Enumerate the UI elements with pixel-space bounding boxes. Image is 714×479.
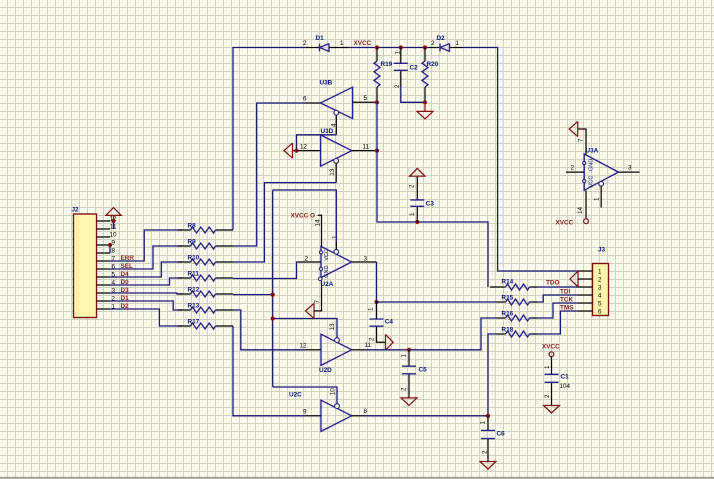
svg-text:8: 8 [111,248,115,255]
svg-text:C6: C6 [497,431,506,438]
svg-text:R19: R19 [381,61,393,68]
wire J2 pin12-pin11 tie [113,221,115,229]
resistor R14 [490,279,537,291]
svg-text:D2: D2 [437,35,446,42]
wire U3B pin4 to U3D pin12 node [297,135,337,151]
resistor R12 [178,287,233,298]
U3A pin1 bubble [599,181,604,186]
svg-text:U3D: U3D [321,128,334,135]
junction R12 joins [271,293,275,297]
svg-text:13: 13 [329,323,336,331]
svg-text:1: 1 [594,197,601,201]
ground below C6 [480,462,496,470]
wire R12 net: vertical with taps to U2A pin1, U2D pin13, U2C pin10 [233,190,337,404]
svg-text:GND: GND [324,266,330,278]
power arrow XVCC above C3 [410,168,425,178]
junction XVCC/R20 [423,45,427,49]
U2A pin3 stub [352,261,377,263]
op-amp buffer U2C (points right) [289,392,368,432]
ground below R20/C2 [417,102,433,119]
capacitor C4 [368,302,394,342]
op-amp buffer U3A (points right) [571,148,633,191]
svg-text:5: 5 [364,95,368,102]
junction C3 [415,220,419,224]
junction U3D pin12 [294,149,298,153]
svg-text:XVCC O: XVCC O [291,213,316,220]
svg-text:2: 2 [544,394,551,398]
sheet bottom border [0,477,714,479]
svg-text:14: 14 [577,206,584,214]
ground below C1 [544,406,560,414]
wire SEL pin6 to R9 [110,246,182,269]
junction U2D pin13 tap [271,316,275,320]
op-amp buffer U2D (points right) [300,334,372,374]
wire D0 pin4 to R11 [110,278,182,285]
svg-text:XVCC: XVCC [556,219,574,226]
svg-text:5: 5 [598,300,602,307]
wire R10 to U3D pin13 [233,183,336,262]
power arrow GND at U3D pin12 [284,143,297,158]
wire U2A out to R15 [377,301,498,303]
svg-text:4: 4 [598,292,602,299]
J3 pin numbers [598,268,602,315]
power arrow GND at U3A pin7 [569,122,578,137]
svg-text:VCC: VCC [324,249,330,261]
U3D pin11 stub [352,150,377,152]
op-amp buffer U3B (points left) [303,80,368,119]
junction at J2 pin9 [108,243,112,247]
connector J2 [72,207,97,318]
junction C6 [486,414,490,418]
svg-text:TDO: TDO [546,280,560,287]
svg-text:11: 11 [363,144,370,151]
svg-text:2: 2 [431,40,435,47]
svg-text:2: 2 [481,450,488,454]
svg-text:9: 9 [303,409,307,416]
resistor R19 [374,48,393,103]
svg-text:14: 14 [315,219,322,227]
svg-text:C5: C5 [419,367,428,374]
wire U2A out down to TDI row [376,262,378,302]
junction XVCC/C2 [399,45,403,49]
U2C pin8 stub [352,415,365,417]
power arrow VCC above J2 [106,208,121,221]
capacitor C5 [400,350,427,398]
wire D3 pin3 to R12 [110,293,182,294]
svg-text:1: 1 [456,40,460,47]
wire ERR pin7 to R8 [110,230,182,261]
power arrow at C4 bottom (points right) [386,335,394,350]
svg-text:J2: J2 [72,207,80,214]
svg-text:VCC: VCC [588,176,594,188]
wire R14 to J3 pin3 TDO [537,286,578,288]
svg-text:1: 1 [479,421,486,425]
resistor R17 [178,319,233,330]
U3D pin12 stub [297,150,321,152]
svg-text:1: 1 [400,354,407,358]
svg-text:U3B: U3B [320,80,333,87]
wire R8 up to top rail and to D1 [233,48,306,231]
wire R18 to J3 pin6 TMS [537,311,578,334]
svg-text:J3: J3 [598,247,606,254]
wire R16 to J3 pin5 TCK [537,303,578,318]
resistor R13 [178,303,233,314]
resistor R16 [498,311,538,322]
resistor R15 [498,295,538,306]
junction C5 [407,348,411,352]
U3A pin3 stub [618,171,639,173]
ground below C5 [401,398,417,406]
power port XVCC above C1 [542,344,560,357]
svg-text:XVCC: XVCC [542,344,560,351]
U2D pin13 bubble [335,338,340,343]
J2 pin numbers [109,216,117,311]
capacitor C6 [479,416,505,462]
capacitor C1 [544,357,571,406]
U3A pin2 stub [566,171,584,173]
svg-text:3: 3 [628,164,632,171]
svg-text:2: 2 [369,337,376,341]
svg-text:2: 2 [571,165,575,172]
svg-text:12: 12 [300,144,308,151]
svg-text:U2C: U2C [289,392,302,399]
junction XVCC/R19 [375,45,379,49]
svg-text:1: 1 [332,235,339,239]
svg-text:1: 1 [598,268,602,275]
svg-text:2: 2 [394,84,401,88]
svg-text:C1: C1 [561,374,570,381]
wire D1 to D2 along XVCC rail, down right side to J3 pin1 [348,48,578,272]
wire C2 bottom to R20 bottom / ground [401,87,425,102]
svg-text:GND: GND [588,159,594,171]
junction U3D out on vertical [375,149,379,153]
svg-text:6: 6 [598,308,602,315]
svg-text:U3A: U3A [586,148,599,155]
power arrow GND at U2A pin7 [306,303,315,318]
svg-text:U2A: U2A [321,281,334,288]
svg-text:8: 8 [364,408,368,415]
svg-text:2: 2 [303,40,307,47]
power arrow at J3 pin2 [570,271,578,287]
svg-text:2: 2 [401,387,408,391]
U2A pin7 bubble [318,277,322,281]
svg-text:10: 10 [329,388,336,396]
resistor R11 [178,271,233,282]
power port XVCC at U3A pin14 [556,219,589,227]
wire D4 pin5 to R10 [110,262,182,277]
U2A pin1 bubble [334,249,339,254]
junction C4 top [374,300,378,304]
svg-text:D1: D1 [316,35,325,42]
U3B pin4 bubble [334,110,339,115]
svg-text:7: 7 [314,300,321,304]
svg-text:XVCC: XVCC [354,40,372,47]
wire R9 to U3B pin6 [233,103,305,246]
wire J2 pin9-pin8 tie [109,245,111,253]
op-amp buffer U2A (points right) [305,246,368,287]
wire U3B/U3D outputs down to C3 node and over to R14 [377,102,488,287]
wire R17 to U2C pin9 [233,326,305,416]
svg-text:104: 104 [560,383,571,390]
wire D2 pin1 to R17 [110,309,182,326]
wire U2C out to C6 node and R18 riser [365,334,498,416]
U2C pin9 stub [305,415,321,417]
svg-text:C3: C3 [426,201,435,208]
svg-text:1: 1 [409,212,416,216]
diode D1 [303,35,348,51]
svg-text:12: 12 [300,343,308,350]
wire R15 to J3 pin4 TDI [537,295,578,302]
svg-text:6: 6 [303,96,307,103]
wire U2D out to R16 riser [365,318,498,350]
capacitor C2 [394,48,418,89]
svg-text:2: 2 [598,276,602,283]
J2 pin stubs pins 12..1 [97,221,111,309]
U2D pin11 stub [352,349,365,351]
U2C pin10 bubble [335,404,340,409]
svg-text:1: 1 [368,307,375,311]
U3B pin6 stub [305,102,321,104]
resistor R10 [178,255,233,266]
resistor R20 [422,48,439,103]
wire R13 to U2D pin12 [233,310,305,350]
resistor R9 [178,239,233,250]
svg-text:10: 10 [109,232,117,239]
U2A pin2 stub [298,261,321,263]
U2D pin12 stub [305,349,321,351]
capacitor C3 [409,177,435,222]
svg-text:1: 1 [340,40,344,47]
junction U3B out / R19 bottom [375,100,379,104]
svg-text:9: 9 [111,240,115,247]
junction R20 bottom [423,100,427,104]
diode D2 [429,35,462,51]
connector J3 [593,247,609,316]
svg-text:13: 13 [329,168,336,176]
svg-text:U2D: U2D [319,367,332,374]
svg-text:C2: C2 [410,65,419,72]
svg-text:7: 7 [577,138,584,142]
J3 pin stubs [578,271,593,311]
wire R11 to U2A pin2 [233,262,298,279]
svg-text:1: 1 [544,365,551,369]
wire D1 pin2 to R13 [110,301,182,310]
svg-text:11: 11 [365,342,372,349]
svg-text:C4: C4 [385,319,394,326]
op-amp buffer U3D (points right) [300,128,370,166]
U3B pin5 stub [353,101,377,103]
U3D pin13 bubble [334,159,339,164]
svg-text:2: 2 [409,184,416,188]
junction at J2 pin12 [111,219,115,223]
svg-text:3: 3 [598,284,602,291]
resistor R18 [498,327,538,338]
resistor R8 [178,223,233,234]
